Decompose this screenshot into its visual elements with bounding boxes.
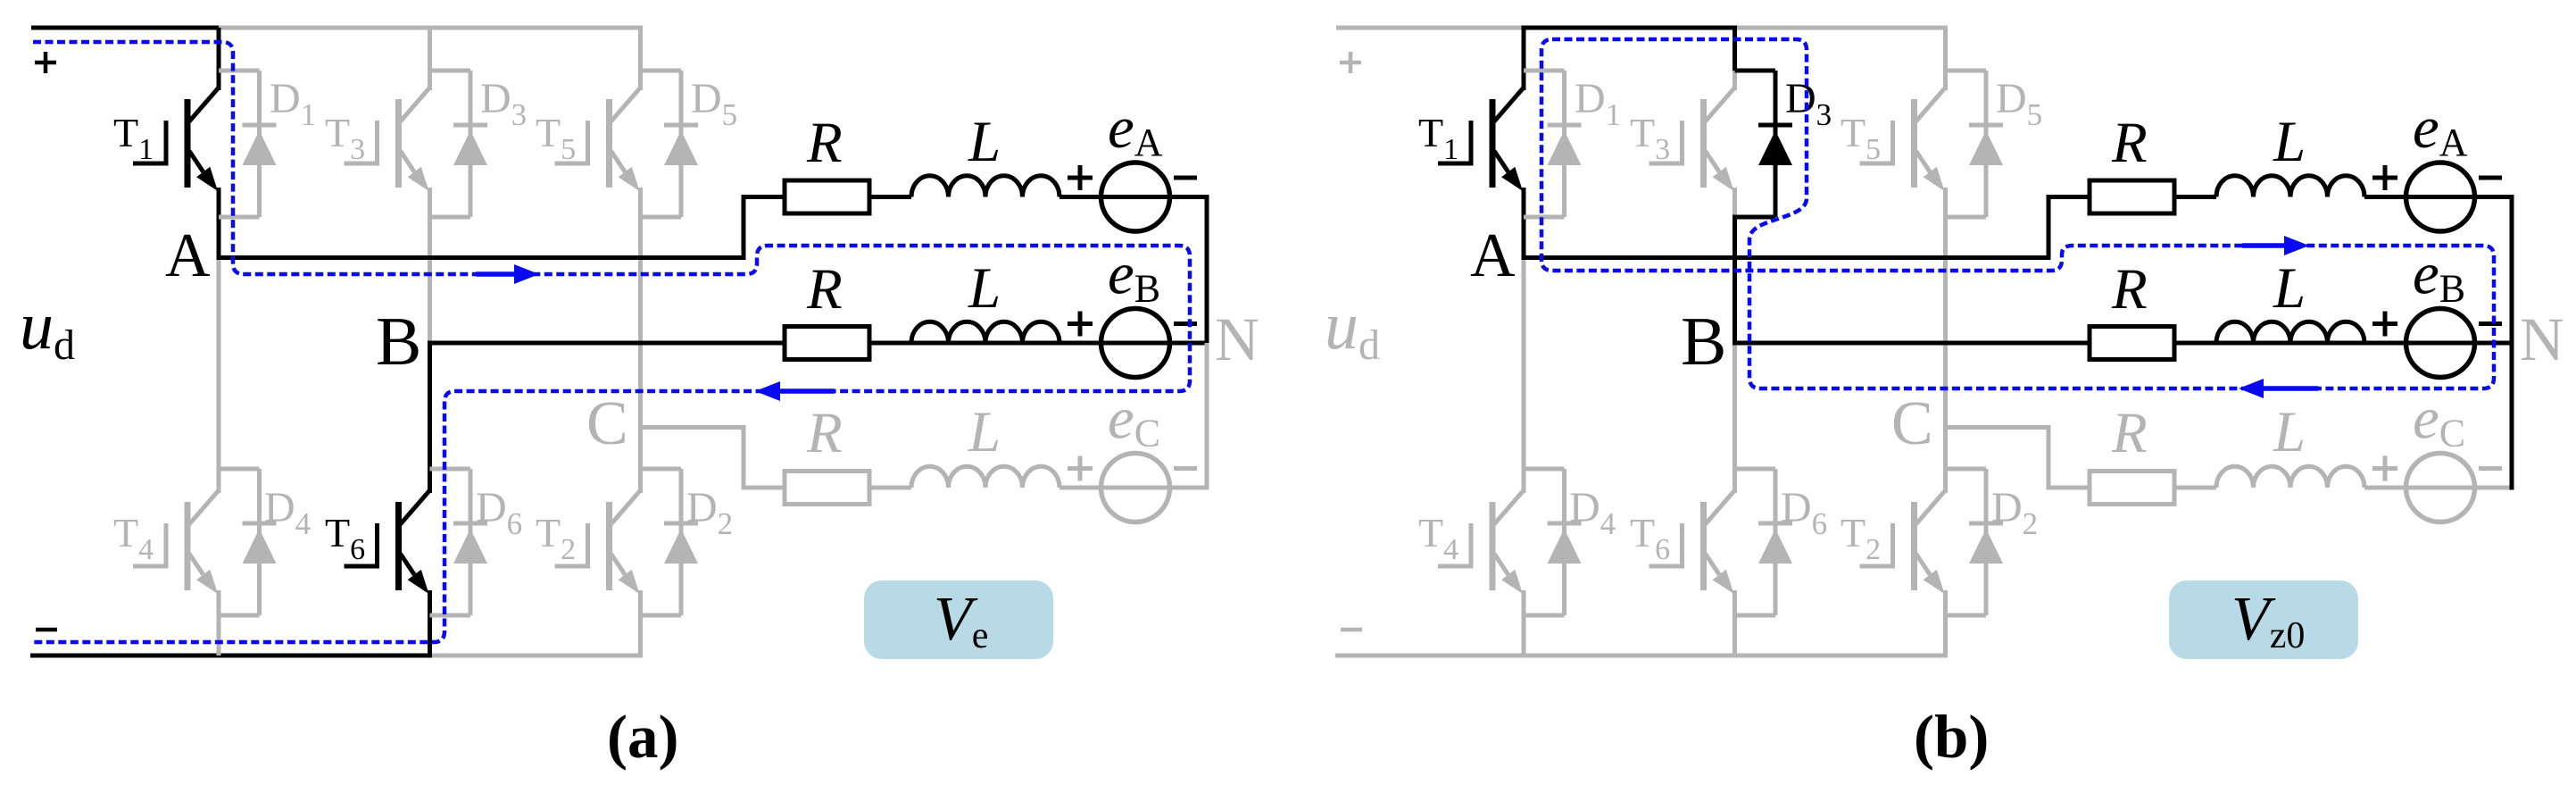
transistor T1	[133, 88, 219, 191]
transistor T3	[1649, 88, 1735, 191]
wire: neutral N vertical (eA to eB, conducting)	[1205, 195, 1209, 346]
wire: neutral N vertical (eB to eC, inactive)	[1205, 343, 1209, 490]
eA - polarity	[1174, 176, 1197, 180]
wire: phase-B leg, + rail to D3 top stub (conducting)	[1733, 26, 1737, 73]
svg-text:N: N	[2520, 305, 2564, 373]
wire: phase-B leg, T3 to D3 bottom stub	[1733, 188, 1737, 220]
resistor R (phase B)	[2090, 327, 2174, 360]
transistor T6	[1649, 490, 1735, 594]
wire: L to eA and N (phase A)	[1059, 195, 1209, 199]
voltage source eC	[2406, 454, 2475, 522]
resistor R (phase A)	[785, 180, 869, 213]
DC bus + rail (inactive)	[219, 26, 643, 30]
DC bus + rail (black conducting segment T1 to D3)	[1522, 26, 1738, 30]
svg-text:(a): (a)	[607, 703, 678, 771]
wire: phase-A leg, T1 emitter to node A	[1522, 188, 1526, 260]
wire: phase-B leg, rail to T3	[428, 28, 432, 90]
transistor T2	[1860, 490, 1946, 594]
resistor R (phase B)	[785, 327, 869, 360]
wire: phase-B leg, node B to T6	[1733, 343, 1737, 493]
wire: phase-B leg, node B to T6 (conducting)	[428, 341, 432, 494]
wire: R to L (phase C)	[2174, 486, 2216, 490]
wire: phase C jog down	[2047, 428, 2051, 486]
inductor L (phase B)	[2216, 322, 2364, 343]
transistor T5	[555, 88, 641, 191]
transistor T1	[1438, 88, 1524, 191]
wire: phase-A leg, T1 collector	[1522, 28, 1526, 90]
inductor L (phase A)	[2216, 176, 2364, 197]
diode D6	[430, 469, 488, 615]
svg-text:L: L	[2273, 256, 2306, 321]
node A wire to load	[217, 255, 746, 260]
wire: phase-B leg, stub to T3	[1733, 71, 1737, 90]
wire: R to L (phase A)	[2174, 195, 2216, 199]
eA + polarity	[2372, 165, 2397, 190]
voltage source eB	[2406, 309, 2475, 378]
voltage source eA	[1101, 163, 1170, 231]
inductor L (phase B)	[911, 322, 1059, 343]
DC bus + rail (black active segment)	[31, 26, 221, 30]
wire: phase A jog up	[742, 195, 746, 258]
svg-text:A: A	[1470, 221, 1516, 290]
eB + polarity	[1068, 312, 1093, 337]
wire: phase-C leg, node C to T2	[638, 428, 643, 494]
wire: phase-A leg, T4 emitter to - rail	[1522, 590, 1526, 656]
inductor L (phase A)	[911, 176, 1059, 197]
svg-text:N: N	[1215, 305, 1259, 373]
vector label box Ve	[864, 580, 1053, 659]
eA + polarity	[1068, 165, 1093, 190]
wire: phase-A leg, T4 emitter to - rail	[217, 590, 221, 656]
resistor R (phase C)	[785, 472, 869, 505]
wire: L to eC and N (phase C)	[1059, 486, 1209, 490]
- rail polarity sign	[36, 628, 57, 632]
diode D1	[219, 71, 277, 217]
wire: phase-B leg, T6 emitter to - rail (conducting)	[428, 590, 432, 658]
transistor T5	[1860, 88, 1946, 191]
wire: phase A jog up	[2047, 195, 2051, 258]
svg-text:(b): (b)	[1914, 703, 1989, 771]
DC bus + rail (inactive left)	[1336, 26, 1526, 30]
wire: phase-A leg, T1 collector	[217, 28, 221, 90]
+ rail polarity sign	[35, 52, 56, 73]
current direction arrow (rightward, phase A)	[2242, 236, 2309, 255]
transistor T3	[345, 88, 430, 191]
svg-text:R: R	[2111, 111, 2148, 175]
wire: phase-C leg, rail to T5	[1943, 28, 1948, 90]
voltage source eA	[2406, 163, 2475, 231]
transistor T4	[133, 490, 219, 594]
wire: phase-C leg, rail to T5	[638, 28, 643, 90]
eC + polarity	[2372, 456, 2397, 481]
svg-text:L: L	[968, 256, 1001, 321]
svg-text:R: R	[806, 257, 843, 322]
wire: R to L (phase A)	[869, 195, 911, 199]
svg-text:R: R	[2111, 401, 2148, 465]
node B wire to load	[428, 341, 1209, 346]
inductor L (phase C)	[911, 466, 1059, 488]
DC bus - rail (inactive)	[430, 654, 644, 658]
diode D3	[430, 71, 488, 217]
diode D1	[1524, 71, 1582, 217]
wire: phase-C leg, T2 emitter to - rail	[638, 590, 643, 656]
transistor T6	[345, 490, 430, 594]
resistor R (phase C)	[2090, 472, 2174, 505]
wire: L to eC and N (phase C)	[2364, 486, 2514, 490]
current direction arrow (leftward, return phase B)	[755, 381, 835, 401]
wire: phase-B leg, T6 emitter to - rail	[1733, 590, 1737, 656]
voltage source eC	[1101, 454, 1170, 522]
wire: phase-C leg, T5 to node C	[1943, 188, 1948, 430]
wire: phase-B leg, T3 to node B	[428, 188, 432, 346]
wire: jog to R (phase C)	[742, 486, 785, 490]
current path (blue dashed loop, b)	[1541, 39, 2494, 388]
eA - polarity	[2479, 176, 2502, 180]
diode D5	[641, 71, 699, 217]
wire: phase-C leg, T5 to node C	[638, 188, 643, 430]
vector label box Vz0	[2169, 580, 2358, 659]
current direction arrow (leftward, return phase B)	[2239, 379, 2318, 398]
svg-text:B: B	[376, 303, 421, 380]
eB + polarity	[2372, 312, 2397, 337]
svg-text:R: R	[806, 401, 843, 465]
svg-text:C: C	[586, 389, 628, 458]
svg-text:B: B	[1681, 303, 1726, 380]
svg-text:R: R	[2111, 257, 2148, 322]
wire: phase-C leg, node C to T2	[1943, 428, 1948, 494]
+ rail polarity sign	[1340, 52, 1361, 73]
DC bus - rail (inactive)	[1335, 654, 1948, 658]
wire: phase-C leg, T2 emitter to - rail	[1943, 590, 1948, 656]
wire: L to eA and N (phase A)	[2364, 195, 2514, 199]
wire: phase-A leg, T1 emitter to node A	[217, 188, 221, 260]
wire: R to L (phase C)	[869, 486, 911, 490]
eB - polarity	[2479, 322, 2502, 326]
svg-text:L: L	[968, 400, 1001, 464]
transistor T4	[1438, 490, 1524, 594]
wire: phase-A leg, node A to T4	[1522, 258, 1526, 494]
wire: phase-B leg, D3 bottom stub to node B (conducting)	[1733, 215, 1737, 346]
diode D4	[1524, 469, 1582, 615]
voltage source eB	[1101, 309, 1170, 378]
svg-text:R: R	[806, 111, 843, 175]
node B wire to load	[1733, 341, 2514, 346]
wire: neutral N vertical (eA to eC, conducting)	[2510, 195, 2514, 490]
wire: phase C jog down	[742, 428, 746, 486]
wire: jog to R (phase C)	[2047, 486, 2090, 490]
wire: jog to R (phase A)	[742, 195, 785, 199]
diode D4	[219, 469, 277, 615]
diode D2	[1946, 469, 2004, 615]
diode D3	[1735, 71, 1793, 217]
diode D2	[641, 469, 699, 615]
svg-text:C: C	[1891, 389, 1933, 458]
wire: phase-A leg, node A to T4	[217, 258, 221, 494]
current path (blue dashed loop, a)	[33, 42, 1190, 642]
svg-text:L: L	[2273, 400, 2306, 464]
eC - polarity	[2479, 466, 2502, 471]
DC bus + rail (inactive right)	[1735, 26, 1949, 30]
diode D6	[1735, 469, 1793, 615]
node C wire to load	[638, 425, 746, 430]
node A wire to load	[1522, 255, 2051, 260]
- rail polarity sign	[1341, 628, 1362, 632]
svg-text:L: L	[968, 110, 1001, 174]
svg-text:A: A	[165, 221, 211, 290]
svg-text:L: L	[2273, 110, 2306, 174]
inductor L (phase C)	[2216, 466, 2364, 488]
node C wire to load	[1943, 425, 2051, 430]
resistor R (phase A)	[2090, 180, 2174, 213]
diode D5	[1946, 71, 2004, 217]
eB - polarity	[1174, 322, 1197, 326]
wire: jog to R (phase A)	[2047, 195, 2090, 199]
eC + polarity	[1068, 456, 1093, 481]
DC bus - rail (black active segment)	[30, 654, 432, 658]
transistor T2	[555, 490, 641, 594]
current direction arrow (rightward, phase A)	[476, 264, 539, 284]
eC - polarity	[1174, 466, 1197, 471]
